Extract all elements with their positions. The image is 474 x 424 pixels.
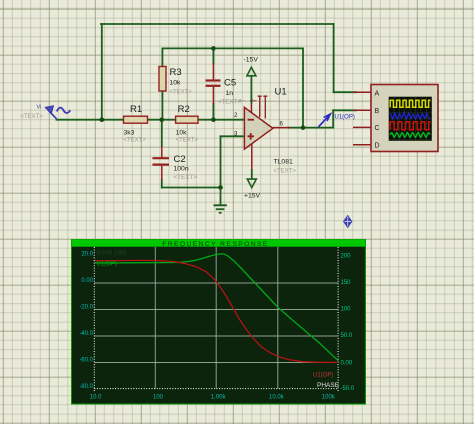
scope trace green sine [390, 133, 430, 138]
ground [214, 188, 227, 213]
svg-text:U1(OP): U1(OP) [97, 261, 117, 267]
wire C2 top lead [161, 120, 163, 146]
capacitor C5 [206, 63, 221, 105]
graph gridline vertical 10k [277, 247, 279, 389]
svg-text:TL081: TL081 [274, 159, 293, 166]
svg-text:150: 150 [341, 280, 352, 286]
junction C5 top [211, 46, 216, 51]
svg-text:C2: C2 [174, 154, 186, 165]
svg-text:Vi: Vi [37, 105, 42, 111]
graph gridline vertical 1k [215, 247, 217, 389]
wire pin 3 vertical [220, 136, 222, 188]
wire feedback mid horizontal [162, 47, 303, 49]
graph bottom axis [94, 388, 338, 390]
wire output up [332, 110, 334, 127]
graph window [72, 240, 366, 405]
svg-text:1.00k: 1.00k [211, 394, 227, 400]
wire output [288, 127, 333, 129]
svg-text:<TEXT>: <TEXT> [274, 169, 297, 175]
resistor R1 [124, 116, 148, 123]
svg-text:<TEXT>: <TEXT> [124, 138, 147, 144]
wire C5 bottom lead [212, 104, 214, 120]
op-amp offset pin 5 [263, 96, 267, 118]
graph title bar [72, 240, 365, 247]
svg-text:2: 2 [234, 113, 238, 119]
svg-text:0.00: 0.00 [341, 360, 353, 366]
svg-text:1n: 1n [226, 90, 234, 97]
op-amp output pin [273, 127, 290, 129]
svg-text:<TEXT>: <TEXT> [176, 138, 199, 144]
wire pin 3 horizontal [221, 135, 245, 137]
graph gridline horizontal -40dB [94, 335, 338, 337]
svg-text:+15V: +15V [244, 193, 261, 200]
svg-text:A: A [375, 90, 380, 97]
svg-text:100k: 100k [322, 394, 336, 400]
wire to scope pin A [334, 91, 356, 93]
wire R3 bottom lead [161, 91, 163, 120]
power -15V [244, 57, 259, 104]
svg-text:10.0: 10.0 [90, 394, 102, 400]
svg-text:PHASE: PHASE [317, 382, 340, 389]
svg-text:U1(OP): U1(OP) [313, 372, 333, 378]
svg-text:100: 100 [153, 394, 164, 400]
scope screen graticule [389, 97, 432, 141]
oscilloscope [353, 85, 438, 152]
scope pin A stub [353, 91, 371, 93]
op-amp V+ pin (bottom) [251, 144, 253, 170]
resistor R2 [176, 116, 198, 123]
svg-text:D: D [375, 143, 380, 150]
generator VI [46, 106, 71, 119]
offset annotation [239, 99, 247, 102]
graph gridline horizontal -60dB [94, 362, 338, 364]
svg-text:U1(OP): U1(OP) [335, 114, 355, 120]
wire C5 top lead [212, 48, 214, 63]
svg-text:B: B [375, 108, 380, 115]
svg-text:R2: R2 [178, 104, 190, 115]
svg-text:FREQUENCY RESPONSE: FREQUENCY RESPONSE [162, 241, 269, 248]
svg-text:20.0: 20.0 [81, 252, 93, 258]
origin marker [343, 215, 352, 228]
SCHEMATIC [57, 24, 357, 190]
svg-text:-50.0: -50.0 [341, 386, 355, 392]
graph gridline horizontal -20dB [94, 309, 338, 311]
svg-text:200: 200 [341, 254, 352, 260]
wire top feedback down to scope A [333, 24, 335, 92]
svg-text:6: 6 [280, 122, 284, 128]
resistor R3 [159, 67, 166, 92]
graph left axis [93, 247, 95, 391]
op-amp plus symbol [248, 133, 255, 140]
svg-text:<TEXT>: <TEXT> [174, 174, 198, 181]
power +15V [244, 169, 261, 200]
svg-text:0.00: 0.00 [81, 278, 93, 284]
svg-text:GAIN (dB): GAIN (dB) [97, 250, 127, 257]
svg-text:R1: R1 [130, 104, 142, 115]
svg-text:-15V: -15V [244, 57, 259, 64]
scope screen [389, 97, 432, 141]
svg-text:10k: 10k [176, 130, 188, 137]
svg-text:-60.0: -60.0 [79, 358, 93, 364]
scope trace red square [390, 122, 430, 130]
wire C2 bottom lead [161, 180, 163, 188]
svg-text:-20.0: -20.0 [79, 305, 93, 311]
voltage probe U1(OP) [319, 114, 355, 127]
svg-text:-80.0: -80.0 [79, 384, 93, 390]
wire R3 top lead [161, 48, 163, 67]
junction input node [100, 117, 105, 122]
op-amp minus symbol [248, 119, 255, 121]
junction ground node [218, 185, 223, 190]
svg-text:50.0: 50.0 [341, 333, 353, 339]
scope trace blue wave [390, 113, 429, 120]
scope pin B stub [353, 109, 371, 111]
junction C5 bottom [211, 117, 216, 122]
op-amp V- pin (top) [250, 103, 252, 113]
svg-text:R3: R3 [170, 67, 182, 78]
scope pin C stub [353, 126, 371, 128]
trace gain green [95, 254, 338, 361]
svg-text:100n: 100n [174, 166, 189, 173]
capacitor C2 [153, 146, 170, 181]
wire C2 to ground node [162, 187, 221, 189]
junction node A [160, 117, 165, 122]
scope trace yellow square [390, 100, 430, 107]
svg-text:<TEXT>: <TEXT> [218, 99, 242, 106]
wire feedback mid down to output node [302, 48, 304, 127]
graph gridline horizontal 0dB [94, 282, 338, 284]
svg-text:10.0k: 10.0k [269, 394, 285, 400]
svg-text:C5: C5 [224, 78, 236, 89]
scope pin D stub [353, 144, 371, 146]
trace phase red [95, 260, 338, 362]
svg-text:<TEXT>: <TEXT> [170, 90, 193, 96]
graph gridline vertical 100 [154, 247, 156, 389]
op-amp offset pin 1 [258, 96, 262, 117]
wire top feedback horizontal [101, 23, 334, 25]
svg-text:10k: 10k [170, 80, 182, 87]
svg-text:3k3: 3k3 [124, 130, 135, 137]
svg-text:<TEXT>: <TEXT> [21, 114, 44, 120]
svg-text:-40.0: -40.0 [79, 331, 93, 337]
wire input node up [101, 24, 103, 121]
junction output node [301, 125, 306, 130]
svg-text:C: C [375, 125, 380, 132]
wire R1 to R2 [147, 119, 177, 121]
svg-text:U1: U1 [275, 87, 287, 98]
wire to scope pin B [333, 109, 356, 111]
op-amp U1 [239, 96, 291, 170]
wire input horizontal [57, 119, 125, 121]
svg-text:100: 100 [341, 307, 352, 313]
wire R2 to op-amp pin 2 [197, 119, 244, 121]
graph right axis [337, 247, 339, 391]
